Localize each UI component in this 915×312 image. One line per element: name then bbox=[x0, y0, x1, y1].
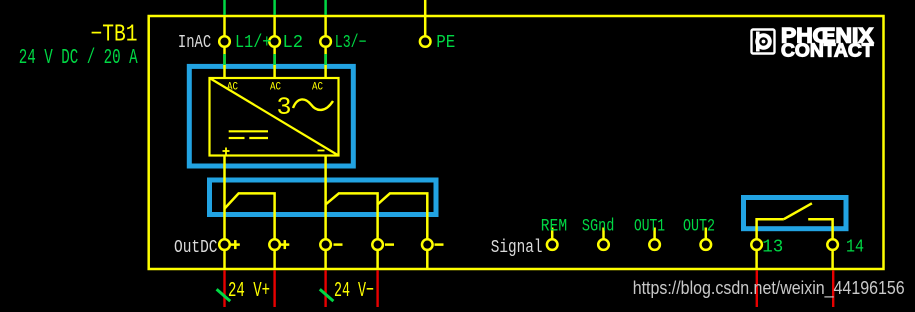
svg-text:OutDC: OutDC bbox=[174, 237, 218, 258]
svg-text:PE: PE bbox=[436, 33, 455, 53]
svg-text:AC: AC bbox=[270, 82, 281, 94]
svg-text:L3/−: L3/− bbox=[335, 33, 367, 53]
svg-text:AC: AC bbox=[312, 82, 323, 94]
svg-text:REM: REM bbox=[541, 217, 567, 237]
svg-text:Signal: Signal bbox=[491, 237, 543, 258]
svg-text:24 V+: 24 V+ bbox=[228, 279, 270, 303]
svg-text:24 V−: 24 V− bbox=[334, 279, 374, 303]
svg-text:−TB1: −TB1 bbox=[91, 22, 138, 49]
svg-text:https://blog.csdn.net/weixin_4: https://blog.csdn.net/weixin_44196156 bbox=[633, 277, 905, 299]
svg-text:14: 14 bbox=[846, 237, 864, 257]
svg-text:L2: L2 bbox=[283, 33, 304, 53]
svg-text:L1/+: L1/+ bbox=[235, 33, 271, 53]
svg-text:SGnd: SGnd bbox=[582, 217, 615, 237]
svg-text:OUT2: OUT2 bbox=[683, 217, 715, 237]
svg-text:OUT1: OUT1 bbox=[634, 217, 665, 237]
svg-text:AC: AC bbox=[227, 82, 238, 94]
svg-text:13: 13 bbox=[762, 237, 783, 257]
svg-text:3: 3 bbox=[277, 93, 292, 122]
svg-text:CONTACT: CONTACT bbox=[781, 40, 874, 61]
svg-text:InAC: InAC bbox=[178, 32, 211, 53]
svg-text:24 V DC / 20 A: 24 V DC / 20 A bbox=[19, 46, 138, 70]
